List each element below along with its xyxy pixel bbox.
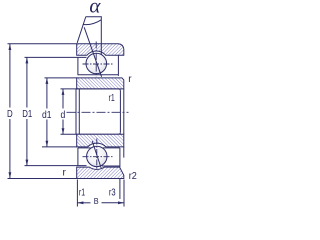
dimension D1 vertical line (26, 57, 29, 165)
extension line D1 top (25, 56, 87, 58)
outer ring upper section (77, 44, 124, 56)
cage upper bottom line (78, 74, 119, 76)
bore left face line (75, 89, 77, 134)
extension line D top (8, 43, 78, 45)
alpha arc (83, 20, 101, 25)
svg-text:d: d (61, 110, 66, 121)
B dimension line with arrows (77, 201, 124, 204)
extension line d bottom (61, 133, 78, 135)
dimension d1 vertical line (46, 78, 49, 147)
extension line D bottom (8, 178, 78, 180)
svg-text:r: r (128, 74, 132, 85)
extension line D1 bottom (25, 165, 87, 167)
ball upper center marks (83, 63, 115, 65)
r3 witness line below (119, 179, 121, 199)
svg-text:d1: d1 (42, 110, 52, 121)
svg-text:r3: r3 (109, 188, 116, 199)
cage upper right vertical (117, 55, 119, 76)
contact angle line lower (92, 141, 102, 172)
dimension D vertical line (9, 44, 12, 178)
svg-text:r2: r2 (129, 171, 137, 182)
lower right face segment (123, 147, 125, 158)
extension line d top (61, 88, 78, 90)
svg-text:r1: r1 (79, 188, 85, 199)
extension line d1 top (45, 77, 78, 79)
bore top line with right rounded corner (76, 89, 120, 91)
ball lower (87, 146, 107, 166)
alpha flag inclined line (77, 17, 86, 43)
cage lower right vertical (119, 148, 121, 167)
alpha flag horizontal (86, 16, 102, 18)
bore right chamfer line (119, 91, 121, 132)
B extension line left (76, 180, 78, 207)
dimension d vertical line (62, 89, 65, 134)
svg-text:D: D (7, 109, 13, 120)
svg-text:B: B (94, 196, 99, 206)
outer ring lower bottom edge to extension (77, 178, 124, 180)
inner ring lower section (77, 134, 124, 147)
bore right face line (123, 89, 125, 134)
B extension line right (123, 180, 125, 207)
bore bottom line with right rounded corner (76, 132, 120, 134)
svg-text:D1: D1 (22, 109, 32, 120)
ball upper (86, 53, 107, 74)
cage lower left vertical (77, 148, 79, 166)
axis center line (67, 111, 129, 113)
ball lower center marks (83, 156, 115, 158)
bore left chamfer line (78, 89, 80, 134)
svg-text:r: r (63, 167, 67, 178)
outer ring lower section (77, 167, 124, 178)
cage lower bottom line right (102, 165, 120, 167)
alpha flag vertical (100, 17, 102, 55)
cage upper left vertical (77, 57, 79, 75)
inner ring upper section (77, 78, 124, 89)
svg-text:r1: r1 (109, 93, 115, 104)
cage lower top line right (103, 147, 120, 149)
svg-text:α: α (89, 0, 101, 17)
extension line d1 bottom (42, 146, 77, 148)
contact angle line upper (84, 27, 101, 77)
cage lower top line left (78, 147, 91, 149)
